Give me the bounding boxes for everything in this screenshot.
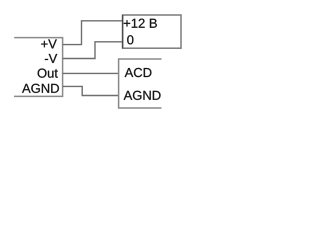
label ACD: [125, 68, 152, 77]
pin label +V: [41, 39, 57, 48]
wire -V to 0 supply: [63, 42, 123, 59]
label 0: [127, 35, 133, 44]
pin label -V: [45, 54, 57, 63]
wire Out to ACD: [63, 72, 119, 74]
pin label AGND: [22, 84, 59, 93]
power supply box +12V/0: [123, 15, 181, 48]
wire AGND to AGND of ADC: [63, 86, 119, 95]
ADC box (open at right): [119, 59, 162, 108]
darker left border of supply box: [122, 15, 124, 48]
label +12 V: [124, 19, 157, 28]
wire +V to +12V supply: [63, 21, 123, 45]
op-amp module box (left, open at left edge): [14, 38, 63, 97]
pin label Out: [38, 69, 58, 78]
label AGND (adc): [124, 91, 161, 100]
